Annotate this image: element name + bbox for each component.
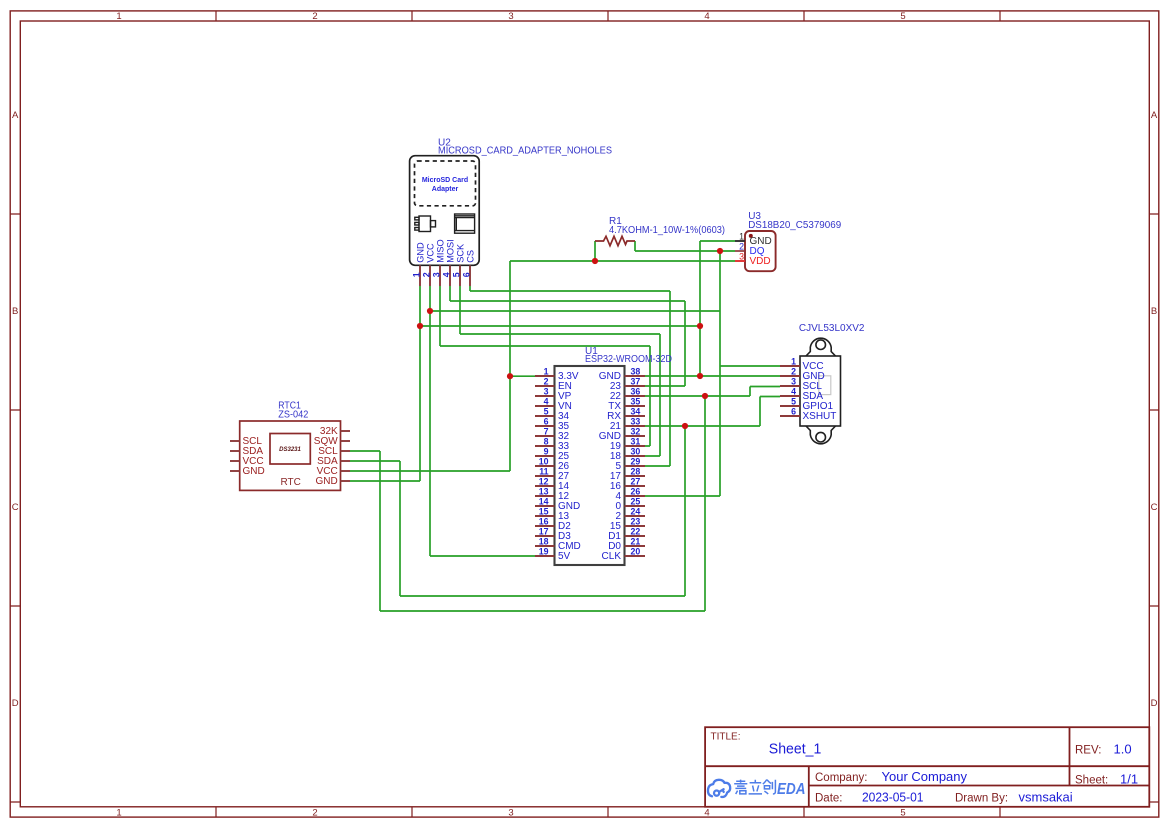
svg-text:21: 21: [631, 536, 641, 546]
svg-text:38: 38: [631, 366, 641, 376]
svg-text:3: 3: [431, 272, 441, 277]
EasyEDA logo chinese glyph chuang: [763, 780, 776, 795]
svg-text:CLK: CLK: [602, 551, 622, 562]
svg-text:23: 23: [631, 516, 641, 526]
svg-text:RTC: RTC: [281, 477, 301, 488]
svg-text:1: 1: [791, 356, 796, 366]
svg-text:B: B: [1151, 306, 1157, 317]
U2 pin stubs 1-6: [420, 265, 470, 286]
svg-text:10: 10: [539, 456, 549, 466]
U2 inner dashed outline: [415, 161, 476, 206]
wire GND net (U2 pin1 / RTC GND / U1 pin38 / U3 GND / module GND): [350, 241, 780, 481]
svg-text:4: 4: [791, 386, 796, 396]
wire SCL net (RTC SCL / U1 pin36 / module SCL): [350, 387, 780, 612]
svg-text:1/1: 1/1: [1120, 772, 1138, 787]
module pin stubs 1-6: [780, 366, 800, 416]
svg-text:19: 19: [539, 546, 549, 556]
U1 right pin stubs 20-38: [625, 376, 646, 556]
svg-text:2023-05-01: 2023-05-01: [862, 790, 924, 805]
ruler row letters right: [1151, 110, 1158, 709]
svg-text:24: 24: [631, 506, 641, 516]
svg-text:VCC: VCC: [425, 243, 435, 263]
svg-text:29: 29: [631, 456, 641, 466]
svg-text:Your Company: Your Company: [882, 769, 968, 784]
svg-text:EDA: EDA: [777, 781, 806, 798]
svg-text:1: 1: [116, 11, 121, 22]
svg-text:33: 33: [631, 416, 641, 426]
svg-text:MOSI: MOSI: [445, 239, 455, 262]
svg-text:3: 3: [508, 808, 513, 819]
svg-text:A: A: [12, 110, 19, 121]
junction dot GND (420,326): [417, 323, 423, 329]
svg-text:Date:: Date:: [815, 793, 843, 805]
module inner faint rect: [819, 376, 831, 395]
svg-text:2: 2: [312, 11, 317, 22]
U2 pin numbers (rotated): [411, 272, 471, 277]
svg-text:16: 16: [539, 516, 549, 526]
svg-text:27: 27: [631, 476, 641, 486]
svg-text:D: D: [12, 698, 19, 709]
wire CS net (U2 pin6 / U1 pin29): [470, 286, 670, 466]
svg-text:3: 3: [508, 11, 513, 22]
wire SCK net (U2 pin5 / U1 pin30): [460, 286, 660, 456]
svg-text:4: 4: [441, 272, 451, 277]
junction dot GND (700,376): [697, 373, 703, 379]
junction dot VCC (430,311): [427, 308, 433, 314]
U3 pin 3 VDD: [735, 260, 745, 262]
svg-text:6: 6: [461, 272, 471, 277]
svg-text:vsmsakai: vsmsakai: [1019, 790, 1073, 805]
svg-text:A: A: [1151, 110, 1158, 121]
RTC1 right pin stubs: [341, 431, 351, 481]
RTC1 right pin labels: [314, 426, 338, 487]
U3 pin 1 GND: [735, 240, 745, 242]
svg-text:2: 2: [312, 808, 317, 819]
wire 3.3V net (U1 pin1 / RTC VCC / U3 VDD / R1): [350, 241, 735, 471]
svg-text:12: 12: [539, 476, 549, 486]
wire MOSI net (U2 pin4 / U1 pin37): [450, 286, 685, 386]
U3 pin-1 marker dot: [749, 234, 753, 238]
U2 regulator package drawing: [415, 216, 436, 232]
svg-text:2: 2: [421, 272, 431, 277]
svg-text:20: 20: [631, 546, 641, 556]
svg-text:C: C: [1151, 502, 1158, 513]
svg-text:8: 8: [544, 436, 549, 446]
svg-text:CJVL53L0XV2: CJVL53L0XV2: [799, 323, 865, 334]
U3 pin 2 DQ: [735, 250, 745, 252]
svg-text:CS: CS: [465, 250, 475, 263]
IC U3 DS18B20 body: [745, 231, 776, 271]
svg-text:C: C: [12, 502, 19, 513]
svg-text:2: 2: [791, 366, 796, 376]
svg-text:26: 26: [631, 486, 641, 496]
svg-text:MicroSD Card: MicroSD Card: [422, 177, 468, 184]
svg-text:9: 9: [544, 446, 549, 456]
svg-text:DS3231: DS3231: [279, 447, 301, 453]
svg-text:GND: GND: [415, 242, 425, 263]
svg-text:D: D: [1151, 698, 1158, 709]
svg-text:2: 2: [544, 376, 549, 386]
U2 sd-card socket drawing: [455, 214, 475, 233]
ruler column numbers bottom: [116, 808, 905, 819]
svg-text:3: 3: [739, 251, 744, 261]
svg-text:36: 36: [631, 386, 641, 396]
svg-text:34: 34: [631, 406, 641, 416]
svg-text:5V: 5V: [558, 551, 571, 562]
svg-text:MICROSD_CARD_ADAPTER_NOHOLES: MICROSD_CARD_ADAPTER_NOHOLES: [438, 146, 612, 157]
svg-text:11: 11: [539, 466, 548, 476]
junction dot 3.3V U1 pin1 (510,376): [507, 373, 513, 379]
title block outline: [705, 727, 1149, 807]
svg-text:XSHUT: XSHUT: [803, 411, 837, 422]
svg-text:5: 5: [900, 11, 905, 22]
svg-text:REV:: REV:: [1075, 745, 1101, 757]
ruler row letters left: [12, 110, 19, 709]
svg-text:3: 3: [544, 386, 549, 396]
svg-text:31: 31: [631, 436, 641, 446]
svg-text:Sheet_1: Sheet_1: [769, 741, 822, 758]
module pin numbers: [791, 356, 796, 416]
svg-text:Adapter: Adapter: [432, 186, 459, 193]
svg-text:1: 1: [739, 231, 744, 241]
U1 right pin name labels: [599, 371, 622, 562]
svg-text:15: 15: [539, 506, 549, 516]
svg-text:B: B: [12, 306, 18, 317]
svg-text:GND: GND: [315, 476, 337, 487]
svg-text:1.0: 1.0: [1114, 742, 1132, 757]
svg-text:1: 1: [116, 808, 121, 819]
IC U2 MICROSD_CARD_ADAPTER_NOHOLES body: [410, 156, 480, 266]
U1 left pin name labels: [558, 371, 581, 562]
svg-text:3: 3: [791, 376, 796, 386]
wire SDA net (RTC SDA / U1 pin33 / module SDA): [350, 397, 780, 597]
svg-text:22: 22: [631, 526, 641, 536]
svg-text:32: 32: [631, 426, 641, 436]
junction dot 3.3V R1 (595,261): [592, 258, 598, 264]
module pin labels: [803, 361, 837, 422]
svg-text:4: 4: [704, 808, 709, 819]
svg-text:25: 25: [631, 496, 641, 506]
svg-text:Drawn By:: Drawn By:: [955, 793, 1008, 805]
svg-text:4.7KOHM-1_10W-1%(0603): 4.7KOHM-1_10W-1%(0603): [609, 225, 725, 236]
svg-text:6: 6: [544, 416, 549, 426]
svg-text:5: 5: [791, 396, 796, 406]
svg-text:7: 7: [544, 426, 549, 436]
svg-text:Company:: Company:: [815, 772, 867, 784]
svg-text:DS18B20_C5379069: DS18B20_C5379069: [748, 220, 841, 231]
U2 pin name labels (rotated): [415, 239, 475, 262]
svg-text:5: 5: [544, 406, 549, 416]
IC U1 ESP32-WROOM-32D body: [555, 366, 625, 565]
svg-text:Sheet:: Sheet:: [1075, 775, 1108, 787]
svg-text:5: 5: [451, 272, 461, 277]
svg-text:30: 30: [631, 446, 641, 456]
svg-text:4: 4: [544, 396, 549, 406]
ruler column numbers top: [116, 11, 905, 22]
EasyEDA logo chinese glyph li: [749, 780, 762, 794]
svg-text:37: 37: [631, 376, 641, 386]
RTC1 inner DS3231 box: [270, 434, 310, 465]
svg-text:14: 14: [539, 496, 549, 506]
junction dot SDA (685,426): [682, 423, 688, 429]
svg-text:35: 35: [631, 396, 641, 406]
wire DQ net (R1 / U3 DQ / U1 gpio4 pin26): [635, 241, 735, 496]
junction dot DQ (720,251): [717, 248, 723, 254]
RTC1 left pin labels: [243, 436, 265, 477]
IC RTC1 ZS-042 body: [240, 421, 341, 490]
svg-text:2: 2: [739, 241, 744, 251]
svg-text:SCK: SCK: [455, 243, 465, 263]
wire VCC net (U2 pin2 / U1 5V pin19 / module VCC): [430, 286, 780, 556]
svg-text:4: 4: [704, 11, 709, 22]
U1 left pin numbers: [539, 366, 549, 556]
EasyEDA logo chinese glyph jia: [734, 780, 747, 794]
RTC1 left pin stubs: [230, 441, 240, 471]
svg-text:6: 6: [791, 406, 796, 416]
svg-text:ESP32-WROOM-32D: ESP32-WROOM-32D: [585, 354, 672, 365]
svg-text:ZS-042: ZS-042: [278, 409, 308, 420]
wire MISO net (U2 pin3 / U1 pin31): [440, 286, 650, 446]
svg-text:18: 18: [539, 536, 549, 546]
svg-text:GND: GND: [243, 466, 265, 477]
module CJVL53L0XV2 outline: [800, 338, 841, 444]
svg-text:28: 28: [631, 466, 641, 476]
svg-text:17: 17: [539, 526, 549, 536]
junction dot GND (700,326): [697, 323, 703, 329]
resistor R1 symbol: [595, 236, 635, 245]
U1 left pin stubs 1-19: [535, 376, 555, 556]
svg-text:1: 1: [544, 366, 549, 376]
svg-text:TITLE:: TITLE:: [711, 732, 741, 743]
svg-text:VDD: VDD: [750, 256, 771, 267]
svg-text:13: 13: [539, 486, 549, 496]
U1 right pin numbers: [631, 366, 641, 556]
svg-text:MISO: MISO: [435, 239, 445, 262]
junction dot SCL (705,396): [702, 393, 708, 399]
EasyEDA logo cloud: [708, 780, 730, 797]
svg-text:5: 5: [900, 808, 905, 819]
svg-text:1: 1: [411, 272, 421, 277]
